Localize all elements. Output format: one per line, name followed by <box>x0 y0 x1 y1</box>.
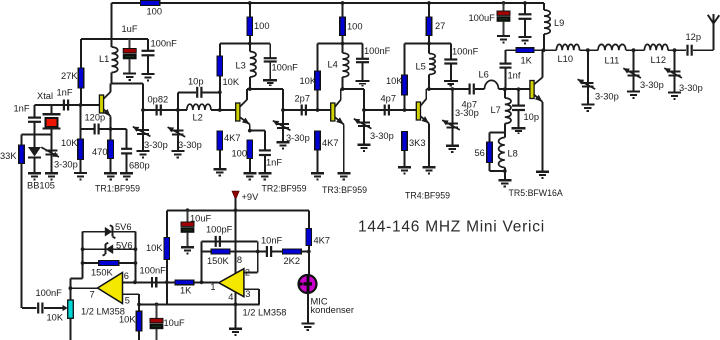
svg-text:1K: 1K <box>521 56 533 66</box>
wire varactor node y134 <box>22 133 52 135</box>
ground 680p <box>120 173 133 179</box>
wire 150K left stub <box>202 251 212 253</box>
svg-text:10K: 10K <box>47 313 64 323</box>
svg-text:27: 27 <box>435 21 445 31</box>
resistor 10K audio bottom <box>136 311 142 340</box>
svg-text:144-146 MHZ Mini Verici: 144-146 MHZ Mini Verici <box>358 219 545 236</box>
trimmer 3-30p filter 2 <box>623 50 641 91</box>
wire pin5 <box>123 294 140 311</box>
svg-text:Xtal: Xtal <box>37 91 53 101</box>
wire top supply rail <box>112 2 545 4</box>
junction filter 3 <box>673 48 677 52</box>
wire TR3 collector node <box>341 89 364 110</box>
capacitor 10uF audio bottom <box>150 304 163 340</box>
svg-text:10K: 10K <box>61 138 78 148</box>
wire 9V to pin8 <box>235 210 237 273</box>
ground trimmer TR4 out <box>446 146 459 152</box>
crystal Xtal <box>43 105 61 134</box>
svg-text:10nF: 10nF <box>261 236 283 246</box>
svg-text:TR2:BF959: TR2:BF959 <box>262 184 307 194</box>
svg-text:4K7: 4K7 <box>314 236 331 246</box>
junction TR5 collector node <box>542 48 546 52</box>
junction rail 10uF <box>186 208 190 212</box>
transistor TR3 BF959 <box>331 89 344 173</box>
resistor 56 <box>487 142 493 171</box>
svg-text:10K: 10K <box>146 243 163 253</box>
wire mic to ground <box>307 292 309 323</box>
transistor TR1 BF959 <box>99 84 110 141</box>
svg-text:10K: 10K <box>119 315 136 325</box>
wire 4p7 to L6 <box>475 88 485 90</box>
svg-text:8: 8 <box>237 255 242 265</box>
trimmer 3-30p filter 3 <box>664 50 682 92</box>
capacitor 1nF series <box>64 100 68 111</box>
svg-text:100: 100 <box>254 21 270 31</box>
svg-text:10K: 10K <box>223 77 240 87</box>
svg-text:33K: 33K <box>0 151 17 161</box>
junction mic node <box>307 250 311 254</box>
svg-text:3: 3 <box>245 289 250 299</box>
ground BB105 <box>28 173 41 179</box>
svg-text:10p: 10p <box>188 77 204 87</box>
ground 470 <box>104 173 117 179</box>
svg-text:TR5:BFW16A: TR5:BFW16A <box>509 188 563 198</box>
inductor L1 <box>112 39 118 84</box>
svg-text:100pF: 100pF <box>206 225 233 235</box>
junction filter 1 <box>586 48 590 52</box>
svg-text:100uF: 100uF <box>469 13 496 23</box>
wire L11-L12 <box>626 49 645 51</box>
resistor 100 TR3 dropper <box>340 3 346 44</box>
svg-text:0p82: 0p82 <box>148 95 169 105</box>
junction fb r3 right <box>134 261 138 265</box>
inductor L10 <box>556 44 579 50</box>
svg-text:3-30p: 3-30p <box>54 160 78 170</box>
wire 150K row b <box>119 262 136 264</box>
wire L2 left stub <box>178 109 187 111</box>
svg-text:4p7: 4p7 <box>381 94 397 104</box>
wire 10K bias to bus2 <box>166 282 168 304</box>
junction TR3 collector <box>341 87 345 91</box>
ground 4K7 TR2 <box>213 169 226 175</box>
svg-text:L4: L4 <box>328 60 338 70</box>
ground 100nF TR1 <box>142 74 155 80</box>
svg-text:BB105: BB105 <box>27 181 55 191</box>
svg-text:kondenser: kondenser <box>311 305 354 315</box>
capacitor 2p7 <box>302 105 306 116</box>
ground 10p TR5 <box>512 128 526 133</box>
antenna <box>708 14 720 24</box>
junction TR2 node/L3 <box>248 42 252 46</box>
wire 120p to emitter <box>99 128 110 130</box>
junction TR4 base <box>403 108 407 112</box>
wire TR1 collector to coupling <box>111 84 143 111</box>
wire 100pF row <box>202 240 258 242</box>
svg-text:3-30p: 3-30p <box>370 131 394 141</box>
capacitor 10uF audio top <box>181 210 194 247</box>
junction 10p TR5 <box>517 87 521 91</box>
inductor L7 <box>505 89 511 132</box>
capacitor 1nF shunt <box>28 118 41 122</box>
wire TR1 supply node y39 <box>81 38 148 40</box>
junction L7 top <box>503 87 507 91</box>
capacitor 1nf <box>500 64 512 90</box>
svg-text:7: 7 <box>90 290 95 300</box>
wire 150K row <box>83 262 99 264</box>
potentiometer wiper arrow <box>44 305 68 311</box>
svg-text:6: 6 <box>124 271 129 281</box>
ground rail cap <box>519 37 532 43</box>
wire L2 right stub <box>211 109 236 111</box>
trimmer 3-30p filter 1 <box>578 50 596 104</box>
svg-text:3-30p: 3-30p <box>178 140 202 150</box>
resistor 100 TR2 emitter <box>247 140 253 173</box>
inductor L4 <box>343 44 349 90</box>
ground 1nF emitter <box>258 173 271 179</box>
transistor TR4 BF959 <box>416 89 429 167</box>
resistor 4K7 audio <box>306 210 312 251</box>
svg-text:100nF: 100nF <box>36 288 63 298</box>
junction nodeX <box>256 250 260 254</box>
capacitor 10nF <box>267 246 271 257</box>
capacitor 4p7 TR4 out <box>470 84 474 95</box>
resistor 4K7 TR2 <box>217 131 223 169</box>
svg-text:100nF: 100nF <box>140 266 167 276</box>
junction rail <box>523 1 527 5</box>
svg-text:L8: L8 <box>508 149 518 159</box>
svg-text:2: 2 <box>245 268 250 278</box>
inductor L6 <box>485 80 499 89</box>
svg-text:680p: 680p <box>129 161 150 171</box>
svg-text:470: 470 <box>92 147 108 157</box>
svg-text:100: 100 <box>147 7 163 17</box>
svg-text:5V6: 5V6 <box>115 222 132 232</box>
capacitor 1uF electrolytic <box>123 39 136 73</box>
svg-text:100: 100 <box>232 149 248 159</box>
svg-text:3-30p: 3-30p <box>595 92 619 102</box>
op-amp U1A 1/2 LM358 (left) <box>98 273 123 304</box>
resistor 100 (supply dropper) <box>141 1 160 6</box>
junction L2 tank left <box>176 108 180 112</box>
resistor 10K TR4 <box>402 44 408 111</box>
svg-text:100: 100 <box>347 22 363 32</box>
resistor 100 TR2 dropper <box>247 3 253 44</box>
junction TR4 node/L5 <box>427 42 431 46</box>
junction fb r2 left <box>81 247 85 251</box>
wire L12 to 12p <box>668 49 686 51</box>
inductor L12 <box>644 44 668 50</box>
svg-text:3-30p: 3-30p <box>144 140 168 150</box>
junction rail 9V <box>234 208 238 212</box>
wire fb box to output col <box>70 279 82 300</box>
svg-text:100nF: 100nF <box>272 63 299 73</box>
wire TR4 collector node <box>426 88 469 90</box>
junction TR2 out <box>281 108 285 112</box>
capacitor 100nF rail <box>519 3 532 36</box>
wire TR3 supply node <box>318 43 363 45</box>
wire to ground L8 <box>504 171 506 180</box>
ground TR4 emitter <box>423 167 436 173</box>
resistor 10K TR2 <box>217 44 223 111</box>
svg-text:3-30p: 3-30p <box>455 108 479 118</box>
ground 100nF TR3 <box>356 81 370 86</box>
capacitor 10p TR5 <box>512 89 525 127</box>
svg-text:L9: L9 <box>554 18 564 28</box>
resistor 1K RF <box>516 48 534 53</box>
svg-text:4: 4 <box>228 292 233 302</box>
capacitor 0p82 <box>157 105 161 116</box>
svg-text:10uF: 10uF <box>190 214 212 224</box>
svg-text:L1: L1 <box>99 54 109 64</box>
ground trimmer TR3 out <box>358 145 371 151</box>
junction TR4 out <box>451 87 455 91</box>
capacitor 100nF TR3 tank <box>356 44 369 81</box>
junction TR2 emitter <box>248 129 252 133</box>
wire node to L10 <box>544 49 557 51</box>
svg-text:L2: L2 <box>193 112 203 122</box>
svg-text:+9V: +9V <box>242 192 260 202</box>
ground 100nF TR4 <box>444 81 458 86</box>
svg-text:4K7: 4K7 <box>224 133 241 143</box>
svg-text:10K: 10K <box>386 76 403 86</box>
wire 120p link <box>81 128 95 130</box>
wire L10-L11 <box>580 49 599 51</box>
wire 1K to node <box>534 49 544 51</box>
capacitor 680p <box>121 149 132 173</box>
junction bus/fb left col <box>200 280 204 284</box>
ground filter trimmer 2 <box>627 92 640 98</box>
capacitor 100nF TR1 tank <box>142 39 155 73</box>
junction TR1 out <box>141 108 145 112</box>
capacitor 120p <box>95 124 99 135</box>
junction TR3 out <box>362 108 366 112</box>
wire 680p branch <box>111 129 127 148</box>
wire fb box right <box>134 232 136 283</box>
ground trimmer L2 <box>171 151 184 157</box>
ground trimmer TR1 out <box>137 151 150 157</box>
svg-text:TR4:BF959: TR4:BF959 <box>405 191 450 201</box>
ground trimmer TR2 out <box>277 142 290 148</box>
wire pin3 <box>244 289 259 304</box>
capacitor 10p over L2 <box>197 87 201 98</box>
resistor 33K <box>19 134 25 163</box>
zener diode 5V6 (1) <box>105 225 116 238</box>
svg-text:TR3:BF959: TR3:BF959 <box>322 185 367 195</box>
ground L8/56 <box>498 180 511 186</box>
wire fb box left <box>82 232 84 279</box>
wire wiper feed <box>22 307 37 309</box>
wire 1nF emitter branch <box>250 131 265 150</box>
wire L8 bottom join <box>490 170 505 172</box>
junction pin5/bus2 <box>137 303 141 307</box>
capacitor 100nF TR4 tank <box>444 44 457 81</box>
wire to 2p7 <box>283 109 331 111</box>
capacitor 100uF electrolytic <box>497 3 510 35</box>
capacitor 100nF coupling <box>152 277 156 288</box>
resistor 2K2 <box>283 249 302 254</box>
svg-text:L7: L7 <box>491 105 501 115</box>
ground 3K3 <box>398 167 411 173</box>
svg-text:5: 5 <box>125 295 130 305</box>
junction base/bias TR1 <box>79 103 83 107</box>
ground 100nF TR2 <box>263 80 277 85</box>
resistor 27K <box>78 39 84 105</box>
wire 12p to antenna <box>693 24 714 51</box>
junction TR3 base <box>316 108 320 112</box>
ground trimmer osc <box>45 173 58 179</box>
junction TR1 emitter <box>109 127 113 131</box>
wire L6 to TR5 base <box>499 88 530 90</box>
wire 10p loop right <box>203 91 220 93</box>
ground filter trimmer 3 <box>668 93 681 99</box>
resistor 150K right opamp <box>211 249 230 254</box>
trimmer 3-30p oscillator <box>41 134 59 172</box>
junction TR4 collector <box>427 87 431 91</box>
wire 1K left stub <box>506 49 517 51</box>
resistor 10K TR1 <box>78 105 84 173</box>
svg-text:3K3: 3K3 <box>409 138 426 148</box>
wire 1nf corner <box>505 50 507 63</box>
junction filter 2 <box>632 48 636 52</box>
resistor 3K3 <box>402 132 408 167</box>
capacitor 100nF output <box>38 303 42 314</box>
junction rail <box>427 1 431 5</box>
svg-text:100nF: 100nF <box>151 39 178 49</box>
svg-text:L5: L5 <box>416 62 426 72</box>
resistor 1K audio <box>175 280 194 285</box>
trimmer 3-30p TR2 out <box>273 110 291 142</box>
inductor L8 <box>499 132 505 171</box>
resistor 150K left opamp <box>99 261 119 266</box>
capacitor 12p <box>688 45 692 56</box>
ground 1uF <box>123 74 136 80</box>
svg-text:150K: 150K <box>207 256 230 266</box>
resistor 4K7 TR3 <box>315 131 321 173</box>
svg-text:10uF: 10uF <box>164 318 186 328</box>
ground 100 emitter <box>243 173 256 179</box>
ground TR3 emitter <box>337 173 350 179</box>
svg-text:150K: 150K <box>91 268 114 278</box>
+9V supply arrow <box>232 191 239 210</box>
inductor L3 <box>250 44 256 90</box>
capacitor 1nF TR2 emitter <box>259 150 271 172</box>
microphone MIC kondenser <box>299 275 317 293</box>
svg-text:3-30p: 3-30p <box>640 80 664 90</box>
junction bus2 10uF <box>155 303 159 307</box>
inductor L11 <box>598 44 626 50</box>
resistor 470 <box>108 140 114 173</box>
wire 150K to nodeX <box>230 251 258 253</box>
ground 4K7 TR3 <box>311 173 324 179</box>
wire zener row 2 <box>83 248 136 250</box>
resistor 10K TR3 <box>315 44 321 111</box>
svg-text:56: 56 <box>475 148 485 158</box>
wire zener row 1 <box>83 231 136 233</box>
varactor diode BB105 <box>28 134 41 172</box>
junction bus/10K <box>165 280 169 284</box>
svg-text:4K7: 4K7 <box>322 138 339 148</box>
inductor L5 <box>429 44 435 90</box>
wire to 4p7 <box>364 109 416 111</box>
wire nodeX down to pin2 <box>244 241 258 272</box>
capacitor 100nF TR2 tank <box>264 44 277 80</box>
junction TR2 collector <box>248 87 252 91</box>
wire nodeX to 10nF <box>258 251 266 253</box>
junction rail <box>248 1 252 5</box>
inductor L2 <box>187 104 211 110</box>
svg-text:TR1:BF959: TR1:BF959 <box>95 184 140 194</box>
wire audio bus 2 <box>139 303 259 305</box>
transistor TR2 BF959 <box>236 89 250 131</box>
junction TR3 node/L4 <box>341 42 345 46</box>
svg-text:27K: 27K <box>61 71 78 81</box>
svg-text:2K2: 2K2 <box>284 256 301 266</box>
capacitor 4p7 TR3 out <box>385 105 389 116</box>
svg-text:2p7: 2p7 <box>295 94 311 104</box>
wire TR2 collector node <box>247 89 283 110</box>
svg-text:L6: L6 <box>479 70 489 80</box>
junction fb r2 right <box>134 247 138 251</box>
svg-text:1K: 1K <box>180 286 192 296</box>
wire opamp output <box>70 287 97 289</box>
junction TR2 base <box>218 108 222 112</box>
svg-text:3-30p: 3-30p <box>679 83 703 93</box>
svg-text:10K: 10K <box>300 76 317 86</box>
svg-text:100nF: 100nF <box>364 46 391 56</box>
transistor TR5 BFW16A <box>530 50 543 171</box>
ground 10uF audio <box>181 247 194 253</box>
svg-text:L10: L10 <box>558 54 574 64</box>
svg-text:1: 1 <box>210 282 215 292</box>
svg-text:120p: 120p <box>85 113 106 123</box>
wire audio supply rail <box>167 209 309 211</box>
trimmer 3-30p TR1 out <box>133 110 151 151</box>
svg-text:5V6: 5V6 <box>116 241 133 251</box>
svg-text:L3: L3 <box>236 61 246 71</box>
trimmer 3-30p TR3 out <box>354 110 372 145</box>
trimmer 3-30p L2 input <box>168 110 186 151</box>
svg-text:1/2 LM358: 1/2 LM358 <box>243 308 287 318</box>
wire rail drop to TR1 node <box>111 3 113 39</box>
wire mic column <box>308 252 310 276</box>
svg-text:1nF: 1nF <box>14 104 30 114</box>
wire to 0p82 <box>143 109 178 111</box>
trimmer 3-30p TR4 out <box>442 89 460 145</box>
wire 56/L8 top split <box>490 132 505 142</box>
junction 10p/10K column <box>218 90 222 94</box>
ground 10K TR1 <box>74 173 87 179</box>
svg-text:L12: L12 <box>651 55 667 65</box>
wire 1nF shunt corner <box>34 105 36 117</box>
junction rail <box>341 1 345 5</box>
wire 10nF to 2K2 <box>272 251 283 253</box>
wire audio bus b <box>194 281 219 283</box>
ground pin4 <box>229 329 242 335</box>
potentiometer 10K (cyan) <box>68 300 74 340</box>
svg-text:10p: 10p <box>524 112 540 122</box>
wire rail corner to L9 <box>543 3 545 10</box>
svg-text:1nf: 1nf <box>508 71 521 81</box>
junction bus/fbbox <box>133 280 137 284</box>
ground 100uF <box>497 36 510 42</box>
op-amp U1B 1/2 LM358 (right) <box>219 269 244 297</box>
ground TR5 emitter <box>536 172 549 178</box>
wire 1nF to varactor node <box>34 122 36 134</box>
zener diode 5V6 (2) <box>103 243 114 256</box>
svg-text:1nF: 1nF <box>266 158 282 168</box>
wire pin4 ground column <box>235 292 237 328</box>
ground filter trimmer 1 <box>581 105 594 111</box>
